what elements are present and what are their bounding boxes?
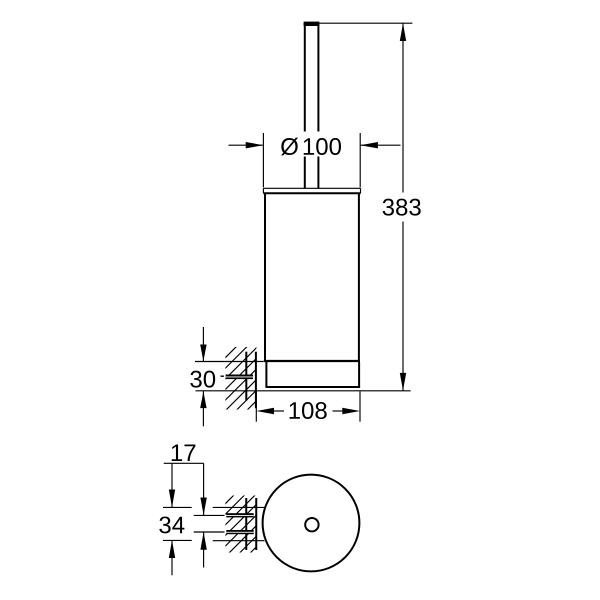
dimension 34 lower shaft (171, 540, 173, 575)
mounting bracket right edge (358, 362, 360, 387)
dimension 108 text (290, 402, 327, 419)
dimension 34 upper extension line (163, 506, 192, 508)
dimension D100 left dim line (229, 144, 263, 146)
dimension 108 right line (333, 410, 344, 412)
top extension line to dimension 383 (319, 22, 412, 24)
brush handle left line (304, 23, 306, 188)
bottom view center hole circle (305, 518, 318, 531)
dimension 17 lower shaft (203, 532, 205, 568)
dimension 17 upper arrowhead (200, 498, 206, 516)
container rim top line (263, 187, 360, 189)
dimension 34 upper shaft (171, 463, 173, 507)
dimension 383 line lower segment (402, 222, 404, 391)
dimension 34 text (159, 516, 184, 533)
bottom view screw 2 threads (226, 530, 253, 534)
bottom view wall line (245, 498, 247, 550)
dimension 17 upper extension line (194, 514, 225, 516)
dimension 108 right extension line (359, 391, 361, 421)
bottom view bracket face line (255, 498, 257, 550)
container rim right edge (360, 188, 362, 193)
dimension 30 upper arrowhead (200, 345, 206, 362)
dimension 108 right arrowhead (342, 408, 360, 414)
dimension 383 text (383, 199, 421, 216)
bottom view bracket top edge (213, 506, 265, 508)
dimension 34 upper arrowhead (169, 490, 175, 508)
dimension D100 right extension line (359, 133, 361, 187)
dimension 17 text (172, 444, 196, 461)
brush handle top cap (304, 22, 320, 26)
container body left edge (264, 193, 266, 361)
dimension 30 lower line (202, 391, 204, 426)
dimension 108 left extension line (255, 391, 257, 421)
dimension D100 text (281, 138, 298, 156)
bottom view holder outer circle (263, 475, 360, 572)
dimension 17 lower extension line (194, 531, 225, 533)
front view wall line (245, 352, 247, 401)
mounting bracket left edge (265, 362, 267, 387)
dimension D100 text background mask (277, 132, 345, 157)
dimension 34 lower arrowhead (169, 540, 175, 558)
front view screw threads (226, 375, 253, 380)
bottom view screw 1 threads (226, 513, 253, 517)
dimension 30 text (190, 371, 215, 388)
bottom view wall hatching (224, 471, 258, 590)
front view wall hatching (224, 325, 258, 444)
bottom view bracket bottom edge (213, 540, 265, 542)
front view wall inner line (255, 352, 257, 409)
bottom extension line across base (196, 390, 411, 392)
dimension D100 right arrowhead (360, 142, 378, 148)
dimension 17 upper shaft (203, 463, 205, 515)
dimension 17 leader line (164, 462, 204, 464)
dimension 108 left line (273, 410, 284, 412)
dimension 30 lower arrowhead (200, 391, 206, 408)
dimension D100 right dim line (361, 144, 401, 146)
container rim left edge (262, 188, 264, 193)
dimension 30 upper line (202, 327, 204, 361)
dimension 383 line upper segment (402, 23, 404, 192)
dimension D100 left arrowhead (246, 142, 264, 148)
container rim bottom line (263, 192, 360, 194)
brush handle right line (317, 23, 319, 188)
dimension 17 lower arrowhead (200, 532, 206, 550)
dimension 383 lower arrowhead (400, 373, 406, 391)
dimension 383 upper arrowhead (400, 23, 406, 41)
dimension D100 left extension line (262, 133, 264, 187)
dimension 108 left arrowhead (256, 408, 274, 414)
upper extension line for dimension 30 (195, 361, 264, 363)
container body right edge (358, 193, 360, 361)
mounting bracket bottom line (265, 386, 360, 388)
front view screw center dash (221, 376, 224, 377)
container bottom line (264, 360, 360, 362)
dimension 34 lower extension line (163, 539, 192, 541)
